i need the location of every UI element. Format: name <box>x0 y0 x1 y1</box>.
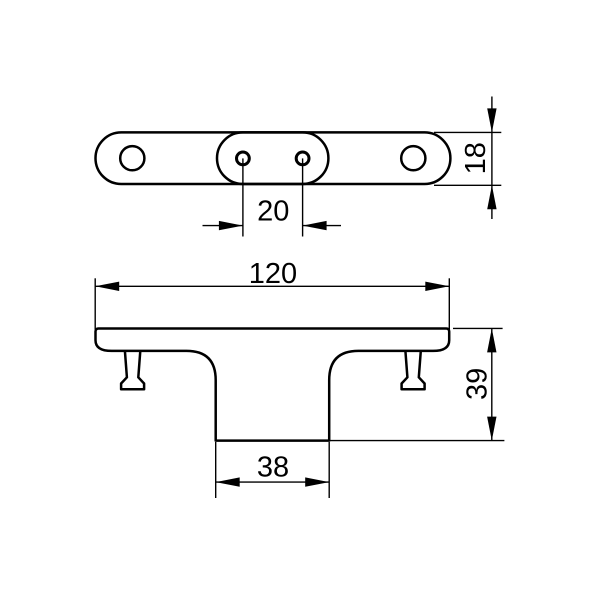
large hole right <box>401 146 425 170</box>
dim 38 arrow left (points left) <box>216 477 240 486</box>
dim 20 extension line left <box>242 158 244 236</box>
dim 38 arrow right (points right) <box>305 477 329 486</box>
dim 38 extension line right <box>328 442 330 498</box>
peg right <box>402 351 425 389</box>
dim 39 extension line bottom <box>327 440 504 442</box>
large hole left <box>120 146 144 170</box>
svg-text:20: 20 <box>257 195 289 227</box>
dim 18 extension line top <box>434 131 501 133</box>
dim 18 arrow bottom (points up) <box>487 185 496 209</box>
svg-text:39: 39 <box>461 368 493 400</box>
dim 20 arrow left (points right) <box>219 221 243 230</box>
top view outer stadium outline <box>96 132 451 184</box>
svg-text:120: 120 <box>249 258 297 290</box>
dim 18 line vertical <box>491 97 493 220</box>
dim 120 arrow left (points left) <box>95 282 119 291</box>
dim 39 arrow bottom (points down) <box>487 417 496 441</box>
dim 18 arrow top (points down) <box>487 108 496 132</box>
dim 20 line right segment <box>303 225 341 227</box>
dim 120 arrow right (points right) <box>425 282 449 291</box>
dim 20 line left segment <box>203 225 243 227</box>
front view handle profile <box>96 329 450 441</box>
dim 39 line vertical <box>491 328 493 440</box>
dim 38 extension line left <box>215 442 217 498</box>
dim 39 extension line top <box>453 327 503 329</box>
dim 120 extension line left <box>94 278 96 329</box>
top view center boss stadium <box>217 132 328 184</box>
dim 120 line <box>95 285 449 287</box>
dim 20 extension line right <box>302 158 304 236</box>
dim 39 arrow top (points up) <box>487 328 496 352</box>
dim 38 line <box>216 481 330 483</box>
svg-text:38: 38 <box>257 452 289 484</box>
dim 18 extension line bottom <box>434 184 501 186</box>
small hole left <box>237 152 250 165</box>
dim 20 arrow right (points left) <box>303 221 327 230</box>
dim 120 extension line right <box>448 278 450 330</box>
peg left <box>121 351 144 389</box>
svg-text:18: 18 <box>460 142 492 174</box>
small hole right <box>296 152 309 165</box>
